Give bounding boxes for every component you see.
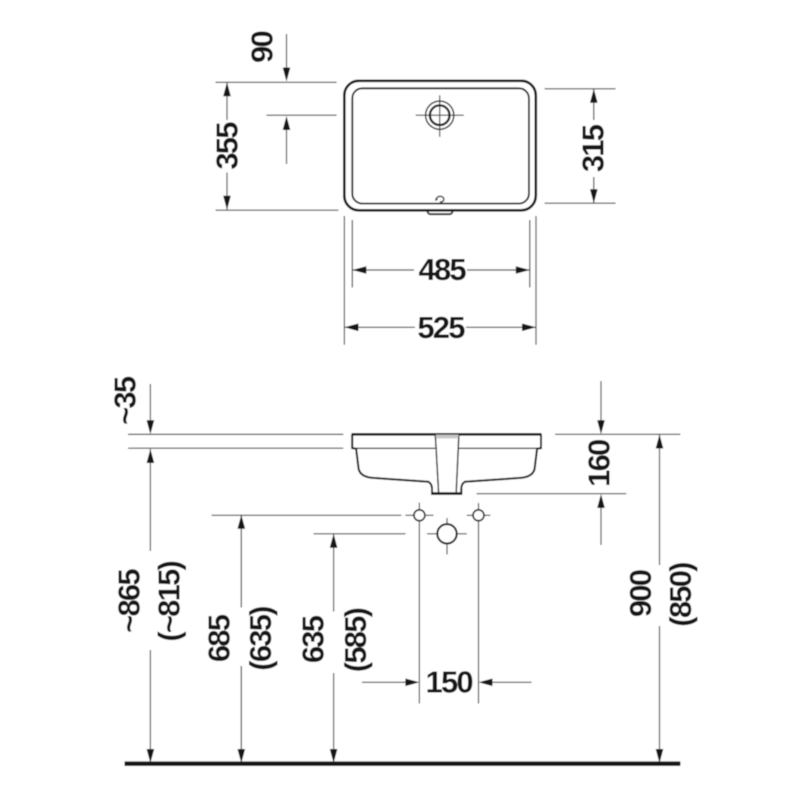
svg-text:485: 485 xyxy=(419,252,467,287)
svg-text:635: 635 xyxy=(296,615,331,663)
svg-text:315: 315 xyxy=(576,124,611,172)
svg-text:(635): (635) xyxy=(243,607,278,671)
svg-text:160: 160 xyxy=(582,440,617,487)
svg-text:(850): (850) xyxy=(663,563,698,627)
svg-text:~35: ~35 xyxy=(108,376,143,425)
svg-text:355: 355 xyxy=(210,122,245,170)
svg-text:525: 525 xyxy=(417,310,465,345)
svg-text:900: 900 xyxy=(623,570,658,617)
svg-text:90: 90 xyxy=(245,32,280,63)
svg-text:685: 685 xyxy=(202,614,237,662)
svg-text:(585): (585) xyxy=(338,608,373,672)
svg-text:150: 150 xyxy=(426,664,473,699)
svg-text:~865: ~865 xyxy=(112,569,147,633)
svg-text:(~815): (~815) xyxy=(152,561,187,641)
